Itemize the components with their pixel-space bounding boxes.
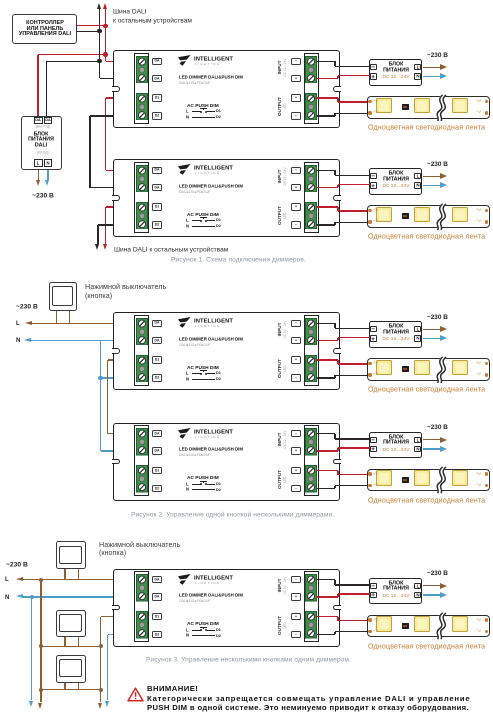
LED5 LED chip 3: [452, 616, 468, 632]
LED1 resistor: [402, 104, 409, 110]
wire U5 input + (red): [317, 596, 338, 597]
PSU1 mains N arrow: [423, 76, 441, 77]
LED2 resistor: [402, 213, 409, 219]
PSU4 terminal +: [370, 446, 377, 452]
U1 left mounting notch: [112, 86, 120, 92]
U5 terminal label DA: [152, 593, 162, 600]
U1 LED output terminal block: [305, 93, 317, 121]
warning text line 1: [147, 695, 470, 703]
wire controller DA+ (red): [77, 25, 105, 26]
wire U1 output + (red): [317, 97, 338, 98]
LED2 LED chip 3: [452, 207, 468, 223]
LED4 resistor: [402, 477, 409, 483]
PSU4 ~230V label: [427, 424, 448, 431]
PSU4 terminal N: [414, 446, 421, 452]
DALI PSU terminal L: [34, 159, 43, 166]
LED5 caption: [368, 643, 485, 651]
U5 terminal label DA: [152, 576, 162, 583]
PSU5 terminal +: [370, 592, 377, 598]
U5 input terminal label -: [291, 576, 301, 583]
PSU2 mains L arrow: [423, 176, 441, 177]
LED1 strip break symbol: [431, 94, 451, 122]
PSU1 ~230V label: [427, 52, 448, 59]
U4 output terminal label -: [291, 485, 301, 492]
wire blue into U4 N: [101, 450, 138, 451]
PSU3 mains L arrow: [423, 329, 441, 330]
wire U4 input + (red): [317, 450, 338, 451]
DALI bus up arrow (black): [99, 9, 100, 31]
LED dimmer module U1 (DALI-101-PD-SUF): [113, 50, 340, 128]
single-color LED strip LED2: [367, 205, 491, 228]
U2 DC input terminal block: [305, 165, 317, 193]
U2 INPUT label (rotated): [278, 107, 283, 245]
U5 Intelligent Light logo: [178, 574, 191, 586]
wire controller DA- (black): [77, 31, 99, 32]
PSU3 label: [290, 324, 493, 330]
wire U1 output - (black): [317, 115, 335, 116]
wire U2 input - (black): [317, 170, 335, 171]
U1 terminal label D1: [152, 94, 162, 101]
DALI PSU terminal N: [44, 159, 53, 166]
wire U2 output - (black): [317, 224, 335, 225]
LED3 +V pad left: [368, 362, 371, 365]
LED3 +V pad right: [485, 362, 488, 365]
DALI PSU terminal DA (left): [34, 117, 43, 124]
U5 OUTPUT label (rotated): [278, 556, 283, 694]
U2 Intelligent Light logo: [178, 164, 191, 176]
U5 output terminal label +: [291, 613, 301, 620]
U5 push-button symbol L-D1: [186, 628, 189, 633]
SW1 stem right: [69, 311, 70, 323]
U2 push-button symbol L-D1: [186, 218, 189, 223]
U4 Intelligent Light logo: [178, 428, 191, 440]
DALI PSU label: [0, 132, 147, 138]
PSU5 ~230V label: [427, 570, 448, 577]
U5 push-dim terminal block (D1,D2): [136, 611, 148, 639]
PSU4 mains L arrow: [423, 439, 441, 440]
U3 terminal label DA: [152, 320, 162, 327]
wire blue into U3 D2: [101, 377, 138, 378]
U1 OUTPUT label (rotated): [278, 38, 283, 176]
LED1 +V pad left: [368, 100, 371, 103]
wire U4 output - (black): [317, 488, 335, 489]
SW2 stem left: [64, 569, 65, 580]
LED2 caption: [368, 233, 485, 241]
U2 left mounting notch: [112, 195, 120, 201]
blue D2 wire (section 3): [108, 634, 137, 635]
wire U5 output + (red): [317, 616, 338, 617]
LED3 LED chip 2: [414, 360, 430, 376]
PSU4 terminal L: [414, 437, 421, 443]
LED5 strip break symbol: [431, 612, 451, 640]
U3 title text: [179, 337, 243, 342]
LED dimmer module U3 (DALI-101-PD-SUF): [113, 312, 340, 390]
U5 title text: [179, 593, 243, 598]
figure 1 caption: [171, 256, 306, 263]
U4 right mounting notch: [333, 459, 341, 465]
U2 terminal label D1: [152, 203, 162, 210]
U2 right terminal bay: [304, 162, 319, 233]
LED4 LED chip 1: [376, 470, 392, 486]
U3 right terminal bay: [304, 315, 319, 386]
LED3 -V pad left: [368, 373, 371, 376]
PSU1 mains L arrow: [423, 67, 441, 68]
wire black DALI out of U1 down to U2: [90, 115, 137, 116]
U1 DC input terminal block: [305, 56, 317, 84]
SW4 output line: [41, 689, 101, 690]
PSU2 terminal -: [370, 173, 377, 179]
wire red DALI out of U1 down to U2: [106, 97, 138, 98]
U1 terminal label DA: [152, 75, 162, 82]
wire U2 output + (red): [317, 206, 338, 207]
U1 push-button symbol L-D1: [186, 109, 189, 114]
PSU3 terminal L: [414, 326, 421, 332]
LED3 resistor: [402, 366, 409, 372]
U4 OUTPUT label (rotated): [278, 410, 283, 548]
U1 Intelligent Light logo: [178, 55, 191, 67]
U5 DC input terminal block: [305, 574, 317, 602]
U3 LED output terminal block: [305, 355, 317, 383]
LED dimmer module U4 (DALI-101-PD-SUF): [113, 423, 340, 501]
U4 input terminal label -: [291, 430, 301, 437]
U3 input terminal label -: [291, 320, 301, 327]
PSU5 terminal L: [414, 583, 421, 589]
wire brown U3 D1 to U4 L: [108, 359, 138, 360]
U1 INPUT label (rotated): [278, 0, 283, 136]
wire U1 input + (red): [317, 78, 338, 79]
U2 push-dim terminal block (D1,D2): [136, 202, 148, 230]
PSU2 label: [290, 171, 493, 177]
U2 terminal label D2: [152, 221, 162, 228]
blue N bus down (section 3): [30, 595, 34, 599]
LED1 LED chip 1: [376, 98, 392, 114]
LED2 strip break symbol: [431, 203, 451, 231]
U3 terminal label D2: [152, 374, 162, 381]
junction red bus: [103, 52, 107, 56]
U3 OUTPUT label (rotated): [278, 300, 283, 438]
warning title: [147, 685, 198, 693]
~230V label under DALI PSU: [0, 192, 175, 199]
U3 output terminal label -: [291, 374, 301, 381]
PSU4 mains N arrow: [423, 448, 441, 449]
U5 input terminal label +: [291, 593, 301, 600]
PSU3 terminal -: [370, 326, 377, 332]
wire U3 output + (red): [317, 359, 338, 360]
figure 2 caption: [131, 511, 334, 518]
U2 terminal label DA: [152, 167, 162, 174]
U3 DALI input terminal block (DA,DA): [136, 318, 148, 346]
U5 wire symbol N-D2: [186, 633, 189, 638]
LED5 LED chip 2: [414, 616, 430, 632]
U3 DC input terminal block: [305, 318, 317, 346]
push switch SW1: [49, 282, 77, 311]
U1 push-dim terminal block (D1,D2): [136, 93, 148, 121]
U4 push-dim terminal block (D1,D2): [136, 465, 148, 493]
DALI power supply box: [21, 116, 62, 171]
LED4 -V pad right: [485, 484, 488, 487]
junction controller black / bus: [97, 29, 101, 33]
LED3 LED chip 1: [376, 360, 392, 376]
single-color LED strip LED4: [367, 469, 491, 492]
U5 right mounting notch: [333, 605, 341, 611]
PSU5 mains N arrow: [423, 594, 441, 595]
LED5 resistor: [402, 623, 409, 629]
U4 input terminal label +: [291, 447, 301, 454]
LED2 LED chip 1: [376, 207, 392, 223]
LED2 -V pad right: [485, 220, 488, 223]
warning text line 2: [147, 704, 469, 712]
U5 terminal label D2: [152, 631, 162, 638]
U3 right mounting notch: [333, 348, 341, 354]
U4 push-button symbol L-D1: [186, 482, 189, 487]
wire black bus into dimmer U1 DA: [99, 61, 100, 78]
PSU5 mains L arrow: [423, 585, 441, 586]
wire red bus to DALI PSU (horizontal): [105, 26, 106, 55]
U3 AC PUSH DIM label: [187, 365, 219, 370]
PSU5 terminal N: [414, 592, 421, 598]
U4 right terminal bay: [304, 425, 319, 496]
LED3 caption: [368, 386, 485, 394]
LED3 LED chip 3: [452, 360, 468, 376]
junction black bus: [97, 59, 101, 63]
U2 LED output terminal block: [305, 202, 317, 230]
wire U1 input - (black): [317, 61, 335, 62]
U4 wire symbol N-D2: [186, 487, 189, 492]
junction D1 bus / SW4 line: [99, 688, 103, 692]
LED1 -V pad right: [485, 111, 488, 114]
LED1 LED chip 2: [414, 98, 430, 114]
DALI bus label (top): [113, 8, 147, 15]
LED2 LED chip 2: [414, 207, 430, 223]
wire U3 output - (black): [317, 377, 335, 378]
wire black bus to DALI PSU (horizontal): [99, 31, 100, 61]
junction D1 bus / SW3 line: [99, 644, 103, 648]
wire U2 input + (red): [317, 187, 338, 188]
DALI PSU terminal DA (right): [44, 117, 53, 124]
wire U4 output + (red): [317, 470, 338, 471]
U4 title text: [179, 447, 243, 452]
LED1 caption: [368, 124, 485, 132]
PSU1 terminal -: [370, 64, 377, 70]
U5 DALI input terminal block (DA,DA): [136, 574, 148, 602]
push switch label (section 2): [85, 283, 166, 291]
U4 terminal label D1: [152, 467, 162, 474]
U1 output terminal label +: [291, 94, 301, 101]
LED4 +V pad right: [485, 472, 488, 475]
DC power supply PSU3: [369, 321, 422, 348]
mains L line (section 2): [16, 320, 20, 327]
U2 AC PUSH DIM label: [187, 212, 219, 217]
U4 terminal label DA: [152, 430, 162, 437]
LED1 +V pad right: [485, 100, 488, 103]
brown L bus down (section 3): [39, 578, 43, 582]
U3 INPUT label (rotated): [278, 260, 283, 398]
warning triangle icon: [127, 687, 144, 702]
PSU2 terminal L: [414, 173, 421, 179]
U4 output terminal label +: [291, 467, 301, 474]
PSU2 ~230V label: [427, 161, 448, 168]
junction controller red / bus: [103, 24, 107, 28]
U4 AC PUSH DIM label: [187, 475, 219, 480]
U5 terminal label D1: [152, 613, 162, 620]
U4 left mounting notch: [112, 459, 120, 465]
PSU4 terminal -: [370, 437, 377, 443]
PSU3 terminal N: [414, 335, 421, 341]
PSU1 label: [290, 62, 493, 68]
U1 DALI input terminal block (DA,DA): [136, 56, 148, 84]
U3 Intelligent Light logo: [178, 317, 191, 329]
LED dimmer module U5 (DALI-101-PD-SUF): [113, 569, 340, 647]
U4 LED output terminal block: [305, 465, 317, 493]
LED5 -V pad left: [368, 630, 371, 633]
PSU1 terminal L: [414, 64, 421, 70]
LED4 caption: [368, 497, 485, 505]
wire U5 input - (black): [317, 579, 335, 580]
DC power supply PSU1: [369, 59, 422, 86]
LED5 -V pad right: [485, 630, 488, 633]
U1 output terminal label -: [291, 112, 301, 119]
PSU2 mains N arrow: [423, 185, 441, 186]
wire red DALI out of U2 to bus continuation: [106, 206, 138, 207]
push switch SW2: [56, 541, 86, 569]
DALI bus continuation label (bottom): [114, 246, 228, 253]
U2 output terminal label -: [291, 221, 301, 228]
wire black DALI out of U2 to bus continuation: [98, 224, 137, 225]
wire red bus into dimmer U1 DA: [105, 55, 106, 62]
PSU2 terminal N: [414, 182, 421, 188]
PSU3 terminal +: [370, 335, 377, 341]
U1 wire symbol N-D2: [186, 115, 189, 120]
PSU1 terminal +: [370, 73, 377, 79]
U1 title text: [179, 75, 243, 80]
SW4 stem left: [64, 683, 65, 690]
U1 terminal label DA: [152, 58, 162, 65]
PSU5 label: [290, 581, 493, 587]
single-color LED strip LED3: [367, 358, 491, 381]
PSU4 label: [290, 435, 493, 441]
LED4 strip break symbol: [431, 466, 451, 494]
SW4 stem right: [78, 683, 79, 690]
SW1 stem left: [56, 311, 57, 323]
U4 terminal label DA: [152, 447, 162, 454]
LED5 +V pad left: [368, 618, 371, 621]
LED4 +V pad left: [368, 472, 371, 475]
wire black down to DALI PSU DA: [46, 61, 47, 118]
U2 left terminal bay: [134, 162, 149, 233]
wire U5 output - (black): [317, 634, 335, 635]
mains L line (section 3): [5, 576, 9, 583]
DC power supply PSU4: [369, 432, 422, 459]
U1 terminal label D2: [152, 112, 162, 119]
junction L bus / SW4 line: [39, 688, 43, 692]
U3 terminal label DA: [152, 337, 162, 344]
DALI PSU mains N arrow: [47, 170, 48, 180]
LED2 +V pad right: [485, 209, 488, 212]
LED1 -V pad left: [368, 111, 371, 114]
U4 INPUT label (rotated): [278, 371, 283, 509]
U5 AC PUSH DIM label: [187, 621, 219, 626]
junction L bus / SW3 line: [39, 644, 43, 648]
~230V label (section 2): [16, 303, 38, 310]
U4 terminal label D2: [152, 485, 162, 492]
DALI PSU mains L arrow: [38, 170, 39, 180]
LED2 +V pad left: [368, 209, 371, 212]
push switch SW4: [56, 655, 86, 683]
wire U3 input - (black): [317, 323, 335, 324]
LED dimmer module U2 (DALI-101-PD-SUF): [113, 159, 340, 237]
wire N drop bus (blue): [100, 341, 101, 452]
U3 left mounting notch: [112, 348, 120, 354]
mains N line (section 3): [5, 594, 9, 601]
U5 left mounting notch: [112, 605, 120, 611]
DC power supply PSU5: [369, 578, 422, 605]
U1 right mounting notch: [333, 86, 341, 92]
U2 terminal label DA: [152, 184, 162, 191]
LED4 LED chip 3: [452, 470, 468, 486]
single-color LED strip LED5: [367, 615, 491, 638]
LED3 -V pad right: [485, 373, 488, 376]
U2 wire symbol N-D2: [186, 224, 189, 229]
controller box: КОНТРОЛЛЕР ИЛИ ПАНЕЛЬ УПРАВЛЕНИЯ DALI: [12, 14, 78, 44]
single-color LED strip LED1: [367, 96, 491, 119]
U3 output terminal label +: [291, 356, 301, 363]
U3 input terminal label +: [291, 337, 301, 344]
U2 output terminal label +: [291, 203, 301, 210]
PSU1 terminal N: [414, 73, 421, 79]
U3 terminal label D1: [152, 356, 162, 363]
U2 title text: [179, 184, 243, 189]
U5 left terminal bay: [134, 571, 149, 642]
PSU3 ~230V label: [427, 314, 448, 321]
PSU2 terminal +: [370, 182, 377, 188]
DALI bus up arrow (red): [105, 9, 106, 26]
U2 input terminal label -: [291, 167, 301, 174]
U1 AC PUSH DIM label: [187, 103, 219, 108]
PSU3 mains N arrow: [423, 338, 441, 339]
U5 right terminal bay: [304, 571, 319, 642]
SW3 stem right: [78, 637, 79, 646]
push switch label (section 3): [99, 541, 180, 549]
figure 3 caption: [146, 656, 351, 663]
wire U4 input - (black): [317, 433, 335, 434]
junction N / U3 D2: [98, 376, 102, 380]
SW2 stem right: [78, 569, 79, 580]
LED5 +V pad right: [485, 618, 488, 621]
U5 LED output terminal block: [305, 611, 317, 639]
mains N line (section 2): [16, 337, 20, 344]
U4 DALI input terminal block (DA,DA): [136, 428, 148, 456]
LED1 LED chip 3: [452, 98, 468, 114]
LED3 strip break symbol: [431, 356, 451, 384]
U4 DC input terminal block: [305, 428, 317, 456]
wire red down to DALI PSU DA: [37, 55, 38, 119]
U2 input terminal label +: [291, 184, 301, 191]
U3 push-button symbol L-D1: [186, 371, 189, 376]
DC power supply PSU2: [369, 168, 422, 195]
brown D1 bus (section 3): [101, 616, 137, 617]
push switch SW3: [56, 610, 86, 638]
U2 right mounting notch: [333, 195, 341, 201]
PSU5 terminal -: [370, 583, 377, 589]
U3 push-dim terminal block (D1,D2): [136, 355, 148, 383]
LED2 -V pad left: [368, 220, 371, 223]
U1 input terminal label +: [291, 75, 301, 82]
SW3 output line: [41, 646, 101, 647]
U2 OUTPUT label (rotated): [278, 147, 283, 285]
wire U3 input + (red): [317, 340, 338, 341]
LED4 LED chip 2: [414, 470, 430, 486]
U3 left terminal bay: [134, 315, 149, 386]
